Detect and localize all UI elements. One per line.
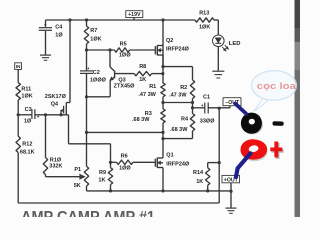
- svg-text:+: +: [37, 115, 40, 120]
- svg-text:1ØK: 1ØK: [21, 93, 32, 99]
- svg-text:C1: C1: [203, 94, 210, 100]
- svg-text:.68 3W: .68 3W: [170, 127, 188, 133]
- svg-text:R6: R6: [121, 154, 128, 160]
- svg-text:R3: R3: [145, 111, 152, 117]
- svg-text:IN: IN: [16, 64, 21, 69]
- svg-text:+19V: +19V: [128, 12, 141, 18]
- svg-text:AMP CAMP AMP #1: AMP CAMP AMP #1: [21, 209, 155, 217]
- svg-text:.47 3W: .47 3W: [138, 92, 156, 98]
- svg-text:R14: R14: [193, 170, 204, 176]
- svg-text:R1: R1: [149, 84, 156, 90]
- svg-text:R5: R5: [120, 42, 127, 48]
- svg-text:+: +: [44, 23, 47, 28]
- svg-text:R11: R11: [21, 86, 31, 92]
- svg-text:1ØK: 1ØK: [199, 25, 210, 31]
- svg-text:C3: C3: [25, 107, 32, 113]
- svg-text:1K: 1K: [98, 178, 105, 184]
- svg-text:1K: 1K: [139, 77, 146, 83]
- svg-text:P1: P1: [74, 167, 81, 173]
- svg-text:Q2: Q2: [166, 38, 173, 44]
- svg-text:ZTX45Ø: ZTX45Ø: [114, 84, 136, 90]
- svg-text:1ØØ: 1ØØ: [119, 166, 131, 172]
- svg-text:.68 3W: .68 3W: [132, 117, 150, 123]
- svg-text:IRFP24Ø: IRFP24Ø: [166, 46, 190, 52]
- svg-text:C2: C2: [93, 70, 100, 76]
- svg-text:1Ø: 1Ø: [24, 118, 32, 124]
- svg-text:+: +: [201, 103, 204, 108]
- svg-text:Q3: Q3: [118, 77, 125, 83]
- svg-text:C4: C4: [55, 25, 63, 31]
- svg-text:1ØØ: 1ØØ: [119, 53, 131, 59]
- svg-text:1Ø: 1Ø: [55, 33, 63, 39]
- svg-text:cọc loa: cọc loa: [257, 80, 297, 91]
- svg-text:332K: 332K: [49, 164, 62, 170]
- svg-text:1K: 1K: [196, 179, 203, 185]
- svg-text:R2: R2: [180, 85, 187, 91]
- svg-text:5K: 5K: [74, 183, 81, 189]
- svg-text:1ØØØ: 1ØØØ: [90, 77, 107, 83]
- svg-text:33ØØ: 33ØØ: [200, 118, 215, 124]
- svg-text:R8: R8: [139, 64, 146, 70]
- svg-text:R1Ø: R1Ø: [50, 157, 62, 163]
- svg-text:IRFP24Ø: IRFP24Ø: [166, 162, 190, 168]
- svg-text:.47 3W: .47 3W: [169, 92, 187, 98]
- svg-text:R13: R13: [199, 10, 209, 16]
- svg-text:Q4: Q4: [51, 101, 59, 107]
- svg-text:R7: R7: [90, 28, 97, 34]
- svg-text:Q1: Q1: [166, 152, 173, 158]
- svg-text:2SK17Ø: 2SK17Ø: [45, 94, 67, 100]
- svg-text:LED: LED: [229, 41, 241, 47]
- svg-text:+: +: [87, 66, 90, 71]
- svg-text:68.1K: 68.1K: [20, 150, 35, 156]
- svg-text:R9: R9: [99, 170, 106, 176]
- svg-text:R4: R4: [181, 116, 189, 122]
- svg-text:R12: R12: [22, 141, 32, 147]
- svg-text:1ØK: 1ØK: [90, 37, 101, 43]
